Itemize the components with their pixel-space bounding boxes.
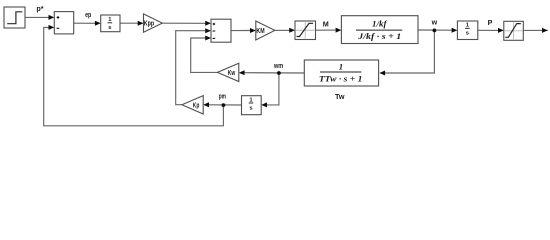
svg-text:M: M [323, 19, 329, 28]
svg-text:s: s [249, 105, 252, 111]
svg-text:P: P [488, 18, 493, 27]
svg-text:p*: p* [36, 4, 43, 13]
svg-text:1/kf: 1/kf [372, 19, 388, 29]
svg-text:w: w [431, 17, 438, 26]
svg-text:Kw: Kw [228, 68, 236, 77]
svg-text:J/kf · s + 1: J/kf · s + 1 [357, 31, 401, 41]
svg-text:Kp: Kp [193, 100, 200, 109]
svg-text:s: s [108, 25, 111, 31]
svg-text:Tw: Tw [335, 92, 345, 101]
svg-text:KM: KM [256, 26, 264, 35]
svg-text:1: 1 [339, 62, 343, 72]
svg-text:wm: wm [273, 61, 283, 70]
svg-text:Kpp: Kpp [144, 19, 155, 28]
svg-text:ep: ep [85, 10, 92, 19]
svg-text:s: s [466, 31, 469, 37]
svg-text:TTw · s + 1: TTw · s + 1 [319, 73, 363, 83]
svg-text:pm: pm [219, 92, 226, 101]
